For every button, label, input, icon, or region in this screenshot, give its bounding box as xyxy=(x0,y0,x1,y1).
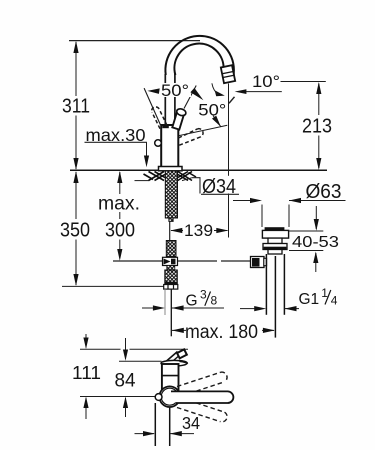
hose stub below junction xyxy=(167,266,175,271)
drain pop-up rod vertical xyxy=(274,256,276,338)
dimension max.300 xyxy=(98,171,140,261)
svg-text:40-53: 40-53 xyxy=(292,234,339,251)
svg-text:84: 84 xyxy=(115,370,136,392)
svg-text:4: 4 xyxy=(331,294,338,308)
top view body cap xyxy=(161,360,187,366)
svg-text:G1: G1 xyxy=(299,291,320,308)
dimension max. 180 xyxy=(172,322,275,343)
angle label 50 deg upper xyxy=(144,82,203,125)
hose tail left xyxy=(164,289,166,315)
drain neck upper xyxy=(268,238,282,243)
angle label 10 deg xyxy=(212,73,326,103)
deck bottom line right of flange xyxy=(182,178,192,181)
faucet body xyxy=(161,125,178,168)
mounting wedge hatch right xyxy=(178,172,196,181)
top view outlet pipe below xyxy=(155,403,169,446)
svg-text:50°: 50° xyxy=(198,101,226,119)
hose collar nut xyxy=(164,282,178,289)
lever swing reference line xyxy=(179,125,227,135)
svg-text:10°: 10° xyxy=(252,73,280,91)
spout aerator xyxy=(221,65,235,83)
spout arc outer xyxy=(165,36,233,77)
drain flange cap xyxy=(262,227,288,238)
spout arc inner xyxy=(174,44,223,75)
drain neck lower xyxy=(268,250,282,255)
rod junction clamp xyxy=(163,257,178,265)
top view lever hub xyxy=(159,386,180,407)
deck surface line right xyxy=(182,169,327,171)
svg-text:311: 311 xyxy=(62,95,90,118)
hose tail right xyxy=(170,289,172,336)
threaded shank lower tab xyxy=(169,218,173,222)
top view dashed lever upper xyxy=(177,372,227,396)
svg-text:G: G xyxy=(186,293,198,310)
svg-text:34: 34 xyxy=(182,413,200,433)
drain flange extension line right xyxy=(288,205,290,228)
hose fitting hatched xyxy=(166,241,176,257)
pop-up rod left segment xyxy=(113,260,217,262)
threaded shank xyxy=(165,171,177,218)
dimension 84 xyxy=(115,338,136,417)
pop-up rod right segment xyxy=(221,260,252,262)
label diameter 34 xyxy=(192,176,240,198)
top view reference line 111 top xyxy=(80,348,188,350)
hose fitting lower hatched xyxy=(165,270,178,284)
supply hose upper xyxy=(169,222,171,241)
svg-text:3: 3 xyxy=(200,288,207,302)
lever handle dashed left xyxy=(152,107,167,129)
top view reference line lever axis xyxy=(80,396,155,398)
top view pivot small circle xyxy=(155,394,162,401)
label max.30 with leader xyxy=(85,125,150,168)
svg-text:213: 213 xyxy=(302,115,332,138)
dimension 311 xyxy=(62,41,90,170)
faucet base flange xyxy=(159,167,183,171)
wire 350 bottom reference line xyxy=(62,285,164,287)
svg-text:350: 350 xyxy=(60,219,90,242)
svg-text:Ø63: Ø63 xyxy=(306,181,342,203)
svg-text:max. 180: max. 180 xyxy=(185,322,258,343)
dimension 139 xyxy=(170,221,228,240)
svg-text:139: 139 xyxy=(184,221,213,240)
top view lever bar xyxy=(171,391,233,403)
wire top reference line 311 xyxy=(69,40,200,42)
angle label 50 deg lower xyxy=(198,101,226,127)
spout outlet axis line xyxy=(228,84,230,238)
deck bottom line left of flange xyxy=(135,180,150,182)
top view spout stub xyxy=(167,349,187,362)
dimension 40-53 xyxy=(289,206,339,272)
drain flange extension line left xyxy=(261,205,263,228)
deck surface line left xyxy=(70,169,159,171)
dimension 34 xyxy=(135,413,201,436)
top view reference line 84 top xyxy=(119,360,162,362)
dimension 350 xyxy=(60,171,90,286)
svg-text:max.: max. xyxy=(98,194,140,215)
top view dashed lever lower xyxy=(177,398,227,422)
mounting wedge hatch left xyxy=(144,172,166,181)
svg-text:8: 8 xyxy=(211,294,218,308)
svg-text:50°: 50° xyxy=(161,82,189,100)
dimension diameter 63 xyxy=(233,181,346,203)
drain pop-up knob xyxy=(251,257,267,268)
drain tailpipe xyxy=(266,254,284,315)
spout vertical tube xyxy=(165,74,175,125)
dimension G 3/8 xyxy=(142,288,224,311)
top view body xyxy=(162,364,179,390)
dimension G1 1/4 xyxy=(240,286,338,311)
svg-text:300: 300 xyxy=(105,219,135,242)
lever handle solid xyxy=(172,108,186,130)
body side knob circle xyxy=(155,140,162,147)
dimension 213 xyxy=(302,82,332,170)
dimension 111 xyxy=(72,334,101,419)
lever handle dashed right xyxy=(178,129,203,146)
drain locknut xyxy=(263,244,287,250)
svg-text:111: 111 xyxy=(72,362,101,383)
